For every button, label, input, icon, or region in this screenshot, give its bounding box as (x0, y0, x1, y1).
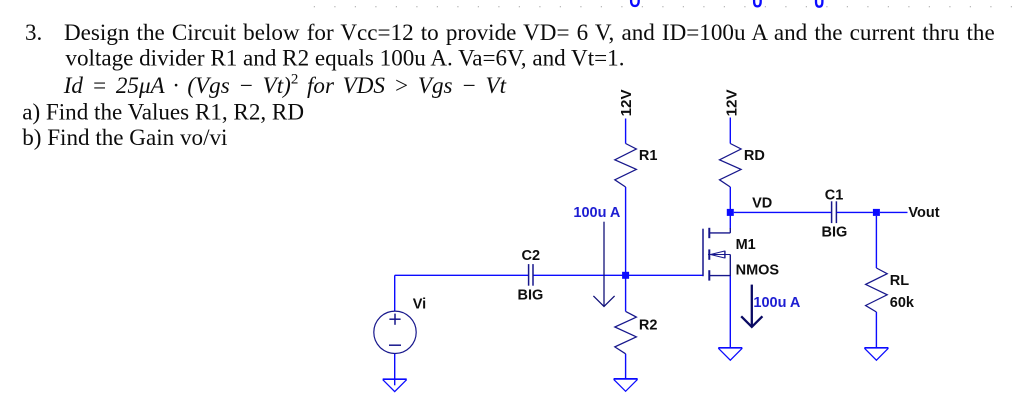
node VD junction (727, 209, 734, 216)
svg-text:Id = 25μA · (Vgs − Vt)2 for VD: Id = 25μA · (Vgs − Vt)2 for VDS > Vgs − … (63, 72, 507, 99)
wire node VD to C1 (734, 211, 831, 213)
node A junction (622, 272, 629, 279)
wire R1 to node A (625, 187, 627, 275)
svg-text:3.: 3. (25, 19, 42, 45)
svg-text:100u A: 100u A (753, 295, 801, 311)
node Vout junction (873, 209, 880, 216)
svg-text:BIG: BIG (518, 287, 544, 303)
svg-text:b) Find the Gain vo/vi: b) Find the Gain vo/vi (22, 124, 227, 150)
svg-text:RL: RL (890, 273, 909, 289)
current arrow 100uA source (741, 285, 762, 327)
capacitor C2 plates (529, 264, 533, 286)
voltage source Vi (374, 311, 416, 353)
svg-text:100u A: 100u A (573, 205, 621, 221)
svg-text:12V: 12V (618, 89, 635, 117)
wire M1 source to ground (729, 276, 731, 348)
wire C2 to gate (533, 274, 703, 276)
ground under Vi (383, 379, 407, 391)
wire node A to R2 (625, 275, 627, 311)
svg-text:60k: 60k (890, 295, 915, 311)
svg-text:12V: 12V (723, 89, 740, 117)
wire C1 to node Vout (837, 211, 873, 213)
svg-text:a) Find the Values R1, R2, RD: a) Find the Values R1, R2, RD (22, 99, 304, 125)
svg-text:Vi: Vi (413, 297, 426, 313)
svg-text:R2: R2 (639, 317, 658, 333)
resistor RL (866, 268, 888, 312)
svg-text:C1: C1 (825, 187, 844, 203)
wire RL to ground (875, 312, 877, 348)
svg-text:M1: M1 (736, 237, 756, 253)
wire Vi bottom lead (394, 354, 396, 386)
grid dots row (314, 6, 1012, 7)
resistor R1 (615, 144, 637, 188)
svg-text:voltage divider R1 and R2 equa: voltage divider R1 and R2 equals 100u A.… (65, 45, 624, 71)
svg-text:BIG: BIG (822, 224, 848, 240)
resistor R2 (615, 311, 637, 353)
svg-text:NMOS: NMOS (736, 262, 780, 278)
wire 12V stub to R1 (625, 119, 627, 144)
ground under M1 source (718, 348, 742, 360)
svg-text:R1: R1 (639, 148, 658, 164)
svg-text:C2: C2 (522, 248, 541, 264)
wire node Vout to Vout label (880, 211, 908, 213)
cropped blue digit 0 (partial) #1 (631, 0, 639, 6)
cropped blue digit 0 (partial) #2 (754, 0, 761, 6)
wire main horizontal Vi to C2 (395, 274, 529, 276)
svg-text:VD: VD (752, 196, 772, 212)
svg-text:Design the Circuit below for V: Design the Circuit below for Vcc=12 to p… (64, 19, 995, 45)
wire node VD to M1 drain (729, 212, 731, 228)
wire Vi top lead (394, 275, 396, 311)
wire RD to node VD (729, 187, 731, 212)
transistor M1 NMOS (703, 228, 730, 281)
capacitor C1 plates (832, 201, 837, 223)
wire node Vout down to RL (875, 216, 877, 268)
resistor RD (720, 144, 742, 188)
cropped blue digit 0 (partial) #3 (816, 0, 822, 7)
current arrow 100uA divider (593, 222, 614, 307)
wire 12V stub to RD (729, 118, 731, 144)
svg-text:Vout: Vout (908, 205, 939, 221)
svg-text:RD: RD (744, 148, 765, 164)
ground under R2 (614, 379, 638, 391)
wire R2 to ground (625, 354, 627, 379)
ground under RL (864, 348, 888, 360)
